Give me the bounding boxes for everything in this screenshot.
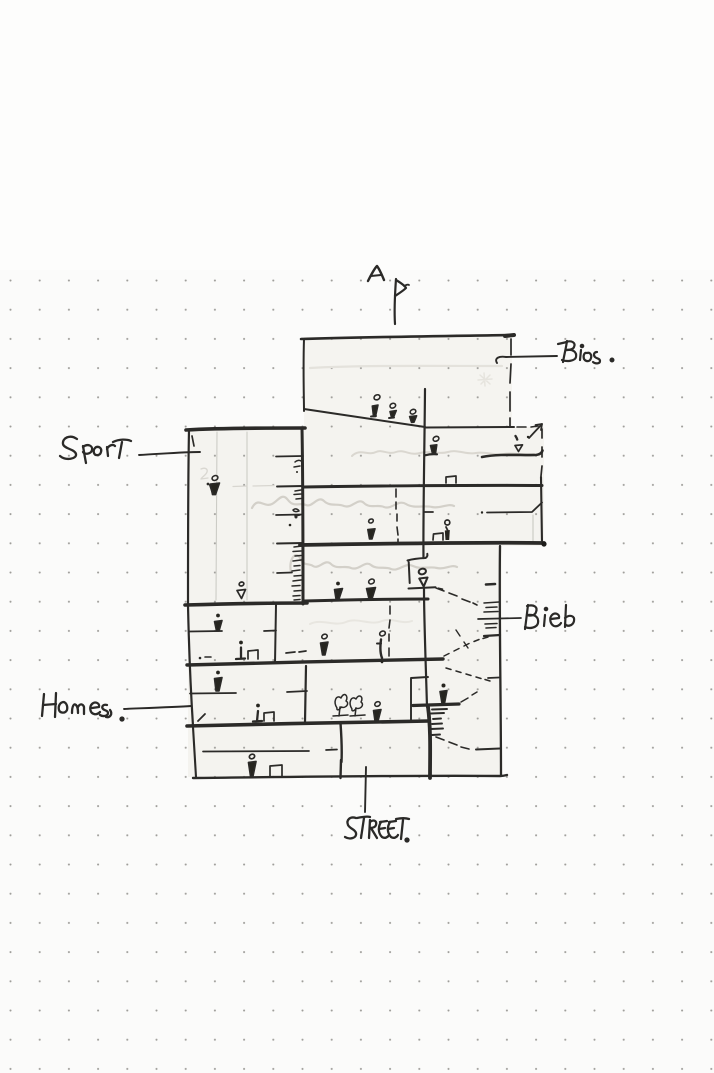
lower right ticks [488,677,499,680]
Homes figure with table [236,641,258,659]
door square lower [411,677,428,722]
building paper tint: lower band [188,604,502,777]
ghost star mark [478,373,492,386]
Sport bottom wall [185,603,307,605]
wavy line y=455 [482,451,543,458]
fan dashes F5 [461,692,477,702]
figure right of central wall [425,435,440,455]
Sport pencil guide lines [216,432,247,600]
fan dashes F2 [444,637,488,656]
bottom-left wall [193,727,196,777]
Sport figure 2 [237,581,246,598]
bieb hatch cluster [484,602,500,636]
label Bieb [525,605,574,629]
leader line Bios [496,356,557,363]
figure on wall 543 [368,518,375,539]
trees [333,695,365,716]
bottom wall [193,775,507,778]
Homes lower shelf y=693 [190,691,307,694]
central vertical wall x=425 [423,389,425,558]
hatch right of heavy vertical [431,709,447,735]
figure in door bracket [418,568,427,587]
Bios dashed right wall [510,339,511,426]
building paper tint: mid band [304,409,544,546]
bottom row divider wall x=341 [341,723,342,778]
leader line Sport [139,452,200,455]
Bios top wall [301,335,513,339]
Homes figure with table 2 [253,704,274,722]
label STREET [345,817,409,842]
building paper tint: Sport block [189,429,304,604]
label Homes [42,693,124,721]
tick on street wall [198,714,205,721]
dashed vertical x=396 [396,489,398,542]
Sport corner tick [192,436,194,446]
Homes heavy wall y=663 [187,659,443,665]
ghost script band 3 [290,555,457,572]
Bios top-right corner blob [505,335,514,336]
ghost script band 1 [352,451,534,456]
dash dot left [205,656,211,658]
bottom row figure with table [249,753,283,776]
tick on central wall y=512 [424,511,433,513]
Homes wall x=276 [275,605,276,663]
corner blob [541,541,546,546]
dashed wall x=542 [541,429,542,476]
north arrow flag [395,279,409,324]
fan dashes F2b [456,630,468,648]
small square and figure group [433,520,450,540]
dot grid [0,266,714,1073]
heavy vertical x=429 [428,707,430,778]
Bios bottom wall right part [425,426,514,429]
Homes lower wall x=306 [305,666,306,722]
figure near dashed corner [515,436,529,452]
heavy wall y=705 [413,704,459,706]
ghost numeral 2 [201,468,208,479]
ghost script band 4 [310,620,412,624]
north arrow letter A [368,266,384,281]
fan dashes F3 [446,668,490,681]
dashed continuation and arrow [517,424,542,438]
label SporT [60,437,131,463]
Sport door ticks [276,456,303,573]
door bracket row band [408,554,443,589]
pencil line x=533 [532,515,534,542]
Homes figure top [215,614,223,631]
building paper tint: row band [304,546,502,604]
Sport dots [207,483,210,486]
figures on wall y=600 [335,578,376,599]
ghost script band 2 [252,497,454,508]
street-top heavy wall [187,721,429,726]
dashed vertical x=390 upper [389,606,390,656]
mid dashes [286,651,306,653]
figure right of door square [440,684,447,704]
leader line STREET [365,767,366,812]
wall y=486 [304,485,542,487]
ghost pencil line in Bios [310,366,502,368]
Homes lower figure [215,671,223,691]
Bios slanted bottom wall [304,409,425,427]
Sport hatch squiggles along right wall [289,460,302,600]
door mark small square [446,476,456,483]
figure near trees [374,701,382,721]
Homes shelf y=631 [189,631,276,632]
Sport right wall [302,428,303,604]
building paper tint: Bios block [304,337,512,427]
leader line Homes [124,706,191,709]
bottom row shelf y=751 [203,750,337,752]
wall y=600 [304,599,428,601]
faint wall continuation pencil [233,486,274,487]
right wall x=500 [500,546,501,776]
mid figures [321,630,387,663]
heavy wall y=544 [300,543,544,545]
figures on Bios slant [371,394,417,423]
right wall upper solid x=542 [541,477,542,543]
Sport top wall [186,428,305,430]
diagonal and shelf y=512 [487,503,542,513]
label Bios [558,341,613,363]
Sport left wall [188,430,189,606]
fan dashes F4 [436,737,469,749]
fan dashes F1 [436,588,477,605]
Homes left wall [188,606,193,726]
Sport figure 1 [210,475,220,495]
bieb leader line [478,618,521,619]
Sport wall stubs (row walls entering) [277,486,303,544]
Bios left wall [303,339,305,411]
bieb tick dark [486,583,495,586]
